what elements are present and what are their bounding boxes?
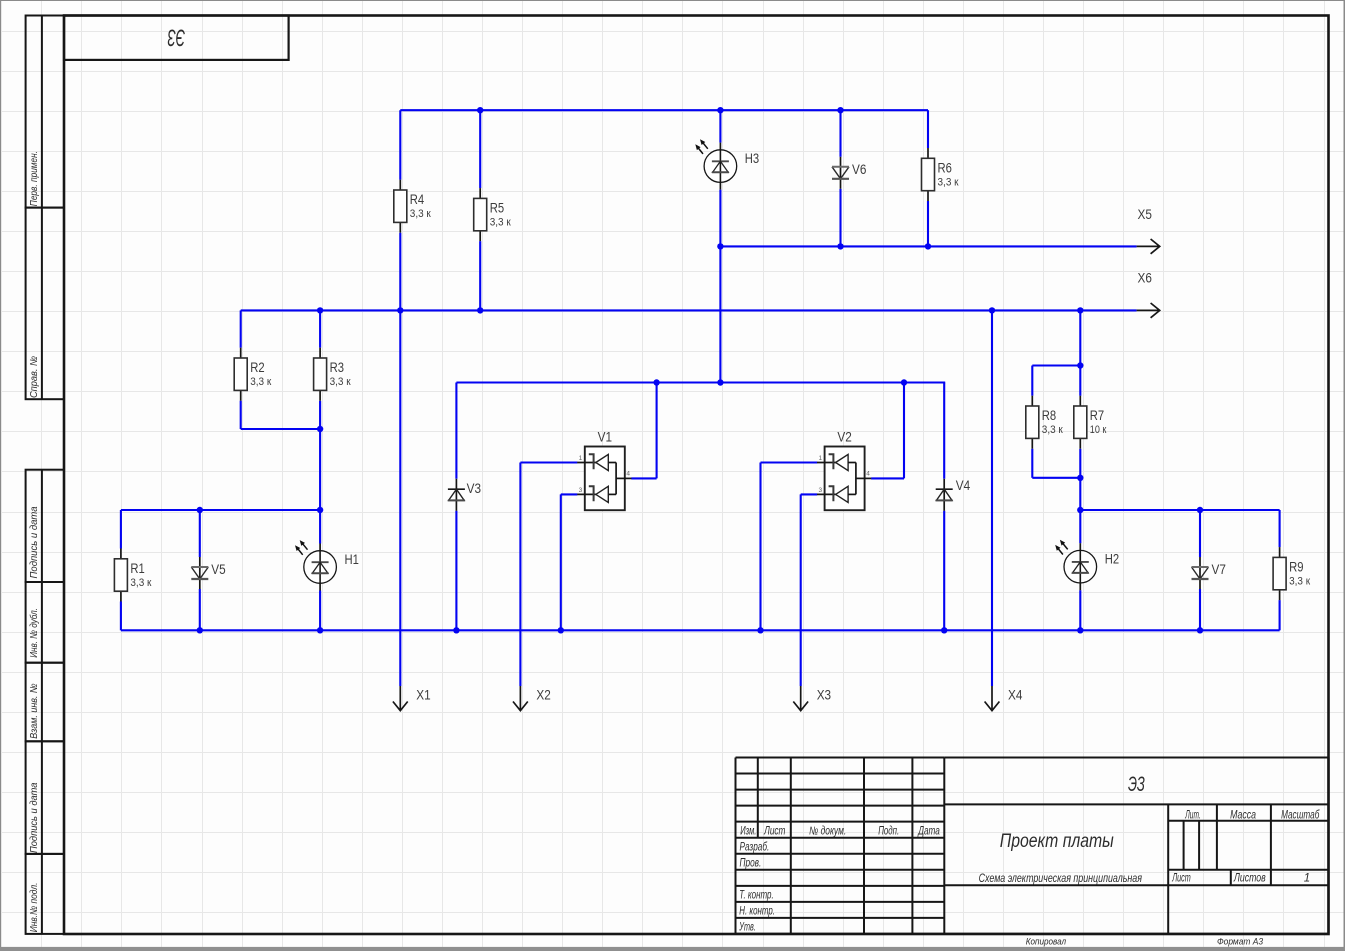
svg-text:Подпись и дата: Подпись и дата xyxy=(29,782,40,853)
svg-text:X5: X5 xyxy=(1138,207,1152,222)
svg-text:Масштаб: Масштаб xyxy=(1281,809,1320,821)
svg-text:Лит.: Лит. xyxy=(1185,809,1201,821)
svg-text:R5: R5 xyxy=(490,201,504,216)
svg-text:3: 3 xyxy=(579,487,583,494)
svg-text:1: 1 xyxy=(1304,873,1310,885)
svg-text:1: 1 xyxy=(818,455,822,462)
svg-text:Формат А3: Формат А3 xyxy=(1217,937,1264,948)
svg-text:Разраб.: Разраб. xyxy=(740,842,770,854)
svg-text:H2: H2 xyxy=(1105,552,1119,567)
svg-text:Подп.: Подп. xyxy=(878,826,899,838)
svg-text:Листов: Листов xyxy=(1233,873,1266,885)
svg-text:3,3 к: 3,3 к xyxy=(130,577,151,589)
svg-text:3,3 к: 3,3 к xyxy=(490,217,511,229)
svg-text:Т. контр.: Т. контр. xyxy=(739,890,773,902)
svg-text:X6: X6 xyxy=(1138,271,1152,286)
svg-text:Пров.: Пров. xyxy=(740,858,762,870)
svg-text:Инв.№ подл.: Инв.№ подл. xyxy=(29,883,40,933)
svg-text:3,3 к: 3,3 к xyxy=(250,376,271,388)
svg-text:ЭЗ: ЭЗ xyxy=(167,24,185,51)
svg-text:H3: H3 xyxy=(745,151,759,166)
svg-text:X2: X2 xyxy=(536,688,550,703)
svg-text:4: 4 xyxy=(866,471,870,478)
svg-text:X1: X1 xyxy=(416,688,430,703)
svg-text:V3: V3 xyxy=(467,481,481,496)
svg-text:X3: X3 xyxy=(817,688,831,703)
svg-text:3,3 к: 3,3 к xyxy=(410,208,431,220)
svg-text:Н. контр.: Н. контр. xyxy=(739,906,775,918)
svg-text:R1: R1 xyxy=(130,561,144,576)
svg-text:V4: V4 xyxy=(956,478,971,493)
svg-text:Утв.: Утв. xyxy=(739,922,756,934)
svg-text:R4: R4 xyxy=(410,192,425,207)
svg-text:R8: R8 xyxy=(1042,408,1056,423)
svg-text:H1: H1 xyxy=(345,552,359,567)
svg-text:V7: V7 xyxy=(1212,562,1226,577)
svg-text:Копировал: Копировал xyxy=(1026,937,1067,948)
svg-text:ЭЗ: ЭЗ xyxy=(1128,772,1145,796)
svg-text:V1: V1 xyxy=(598,429,612,444)
svg-text:R3: R3 xyxy=(330,360,344,375)
svg-text:Схема электрическая принципиал: Схема электрическая принципиальная xyxy=(979,873,1142,885)
svg-text:V5: V5 xyxy=(211,562,225,577)
svg-text:R7: R7 xyxy=(1090,408,1104,423)
svg-text:Лист: Лист xyxy=(763,826,785,838)
svg-text:3,3 к: 3,3 к xyxy=(938,177,959,189)
svg-text:Подпись и дата: Подпись и дата xyxy=(29,506,40,578)
svg-text:Инв. № дубл.: Инв. № дубл. xyxy=(28,608,40,658)
svg-text:R2: R2 xyxy=(250,360,264,375)
svg-text:3,3 к: 3,3 к xyxy=(1289,576,1310,588)
svg-text:Взам. инв. №: Взам. инв. № xyxy=(29,683,40,738)
svg-text:X4: X4 xyxy=(1008,688,1023,703)
svg-text:Изм.: Изм. xyxy=(740,826,756,838)
svg-text:Масса: Масса xyxy=(1230,809,1256,821)
svg-text:V2: V2 xyxy=(837,429,851,444)
svg-text:3: 3 xyxy=(818,487,822,494)
svg-text:Справ. №: Справ. № xyxy=(29,356,40,398)
svg-text:3,3 к: 3,3 к xyxy=(330,376,351,388)
svg-text:Перв. примен.: Перв. примен. xyxy=(29,151,40,206)
svg-text:Дата: Дата xyxy=(917,826,940,838)
svg-text:3,3 к: 3,3 к xyxy=(1042,424,1063,436)
svg-text:R6: R6 xyxy=(938,161,952,176)
svg-text:Проект платы: Проект платы xyxy=(1000,830,1114,852)
svg-text:R9: R9 xyxy=(1289,560,1303,575)
svg-text:10 к: 10 к xyxy=(1090,424,1107,436)
svg-text:4: 4 xyxy=(626,471,630,478)
svg-text:V6: V6 xyxy=(852,162,866,177)
svg-text:1: 1 xyxy=(579,455,583,462)
svg-text:Лист: Лист xyxy=(1172,873,1191,885)
svg-text:№ докум.: № докум. xyxy=(809,826,846,838)
